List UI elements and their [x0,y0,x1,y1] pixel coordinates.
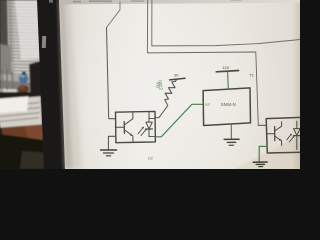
wall below window [0,44,13,95]
svg-text:2200: 2200 [158,80,164,91]
LED inside U2 [146,112,155,137]
screen left edge shadow [59,0,82,169]
right edge photo shade [0,0,1,1]
monitor bezel [37,0,66,169]
bezel sticker [42,36,46,48]
ground (U2 emitter) [101,150,117,156]
white band on sill [0,89,17,97]
brown bowl on sill [18,85,29,93]
wire: lower bus line turning down into net T3 [147,0,258,125]
curtain edge dark strip [0,0,8,48]
wire: net T3 to right opto anode pin [258,124,266,126]
dark gap right of sill [29,60,47,104]
light arrows inside right opto [287,134,295,142]
power symbol 12V [216,71,238,72]
svg-text:3V: 3V [174,73,179,78]
window blinds [0,0,46,80]
desk surface [0,92,58,169]
svg-text:U2: U2 [148,156,153,160]
svg-text:SN04-N: SN04-N [221,102,236,107]
resistor R4 [165,81,176,99]
application toolbar strip [59,0,300,4]
wire: right opto cathode to ground [259,146,267,161]
wire: long vertical net from top edge down to U2 collector pin [107,2,121,28]
wire: resistor to U2 anode pin [155,100,168,118]
wire: 12V to SN04-N Vcc pin [227,72,230,89]
paper stack [0,93,44,129]
window sill [0,74,34,84]
opto body U3 box (right, partially offscreen) [266,117,302,153]
shelf clutter strokes [2,69,13,92]
svg-text:out: out [205,102,210,106]
sensor SN04-N box [203,88,250,126]
wire: SN04-N gnd pin down [230,125,232,139]
phototransistor inside right opto [266,122,281,146]
LED inside right opto (clipped by screen edge) [294,121,301,149]
svg-text:T3: T3 [249,72,254,77]
desk shadow / dark foreground [0,134,52,169]
background wall / dark base [0,0,300,169]
ground (right opto) [253,162,267,167]
phototransistor inside U2 [115,113,133,141]
opto body U2 box [116,111,156,142]
monitor screen [59,0,300,169]
power symbol 3V [170,78,185,81]
bezel top notch [49,0,53,3]
blue teapot on sill [19,74,28,84]
svg-text:12V: 12V [222,65,229,70]
light arrows inside U2 [138,127,147,136]
ground (SN04-N) [224,139,239,145]
wire: upper bus line (vertical then horizontal off right edge) [152,0,300,46]
wire: U2 emitter to ground [108,136,115,149]
toolbar text smudges [73,0,242,2]
window frame divider [10,0,12,62]
wire: U2 cathode to SN04-N output pin (45 deg) [155,104,203,137]
screen bottom right warm shade [235,135,300,169]
